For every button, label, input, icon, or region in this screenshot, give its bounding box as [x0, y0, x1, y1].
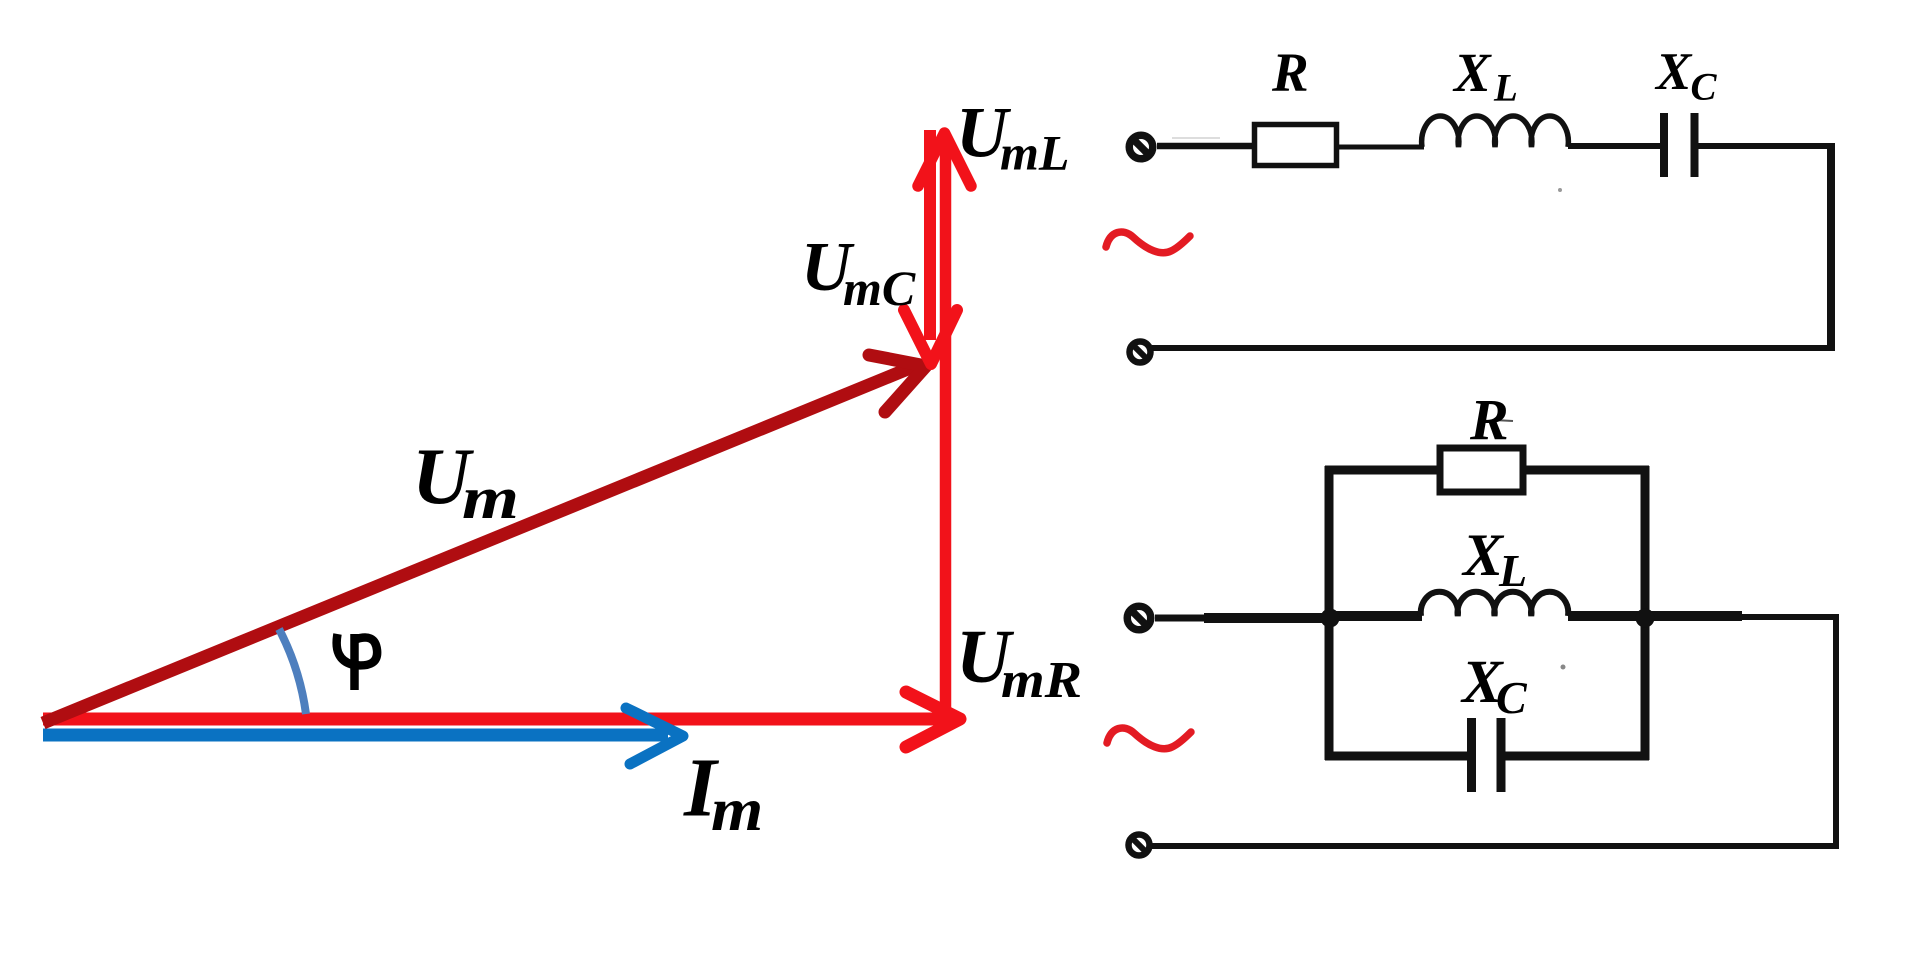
svg-text:mC: mC [843, 260, 916, 316]
svg-text:C: C [1496, 672, 1528, 723]
svg-text:C: C [1691, 66, 1718, 109]
svg-text:R: R [1469, 387, 1509, 452]
svg-text:R: R [1271, 42, 1309, 103]
svg-text:mL: mL [1000, 125, 1069, 181]
svg-text:L: L [1493, 67, 1518, 110]
svg-text:L: L [1498, 545, 1527, 596]
svg-text:X: X [1654, 43, 1693, 101]
svg-text:m: m [711, 776, 763, 844]
svg-text:X: X [1452, 42, 1492, 103]
svg-text:mR: mR [1001, 651, 1082, 709]
svg-text:m: m [462, 465, 519, 531]
